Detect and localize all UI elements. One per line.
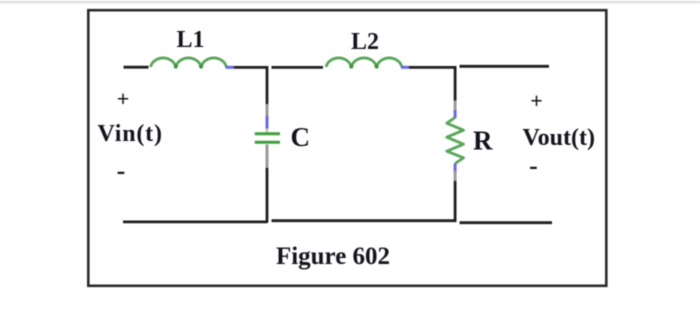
top page divider line — [0, 1, 700, 3]
wire: resistor node to right edge — [460, 65, 550, 68]
wire: cap top lead (black) — [266, 66, 269, 104]
wire: resistor bottom lead (black) — [454, 181, 457, 222]
inductor L1 — [151, 58, 227, 69]
svg-text:Figure 602: Figure 602 — [276, 243, 390, 270]
wire: L2 to resistor node — [409, 66, 457, 69]
svg-text:C: C — [291, 122, 311, 152]
svg-text:+: + — [117, 86, 130, 111]
svg-text:+: + — [530, 88, 543, 113]
wire: top-left stub — [124, 66, 149, 69]
node: resistor top lead (blue highlight) — [454, 110, 457, 118]
node: L1 right lead (highlight) — [226, 66, 235, 69]
wire: resistor top lead (black) — [454, 66, 457, 101]
svg-text:Vin(t): Vin(t) — [98, 121, 163, 147]
node: cap top lead (blue highlight) — [266, 116, 269, 129]
wire: L1 to capacitor node — [234, 66, 268, 69]
capacitor C branch — [255, 66, 280, 223]
outer border frame — [88, 10, 606, 286]
wire: cap top lead (gray) — [266, 104, 269, 116]
svg-text:L2: L2 — [351, 29, 379, 55]
resistor R zigzag — [447, 118, 464, 164]
svg-text:L1: L1 — [176, 27, 204, 53]
svg-text:-: - — [117, 156, 126, 185]
wire: bottom-right segment — [460, 221, 553, 224]
capacitor C top plate — [255, 132, 280, 135]
wire: bottom-left segment — [123, 220, 268, 223]
wire: resistor bottom lead (gray) — [454, 171, 457, 181]
resistor R branch — [447, 66, 464, 222]
svg-text:R: R — [473, 126, 493, 156]
svg-text:Vout(t): Vout(t) — [523, 125, 595, 151]
inductor L2 — [326, 58, 402, 69]
node: resistor bottom lead (blue highlight) — [454, 164, 457, 172]
wire: resistor top lead (gray) — [454, 101, 457, 111]
wire: bottom-middle segment — [272, 219, 457, 222]
wire: cap bottom lead (gray) — [266, 145, 269, 168]
wire: capacitor node to L2 — [272, 66, 324, 69]
capacitor C bottom plate — [255, 141, 280, 144]
node: L2 right lead (highlight) — [401, 66, 409, 69]
svg-text:-: - — [529, 151, 538, 180]
wire: cap bottom lead (black) — [266, 168, 269, 223]
